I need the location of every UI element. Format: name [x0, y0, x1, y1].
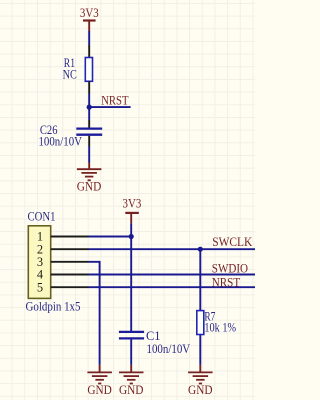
- svg-text:CON1: CON1: [28, 209, 56, 223]
- svg-text:NRST: NRST: [212, 275, 241, 289]
- svg-text:SWDIO: SWDIO: [212, 262, 248, 276]
- svg-text:5: 5: [37, 280, 43, 294]
- svg-text:GND: GND: [119, 383, 144, 397]
- svg-text:100n/10V: 100n/10V: [147, 342, 191, 356]
- svg-text:NRST: NRST: [101, 94, 129, 108]
- svg-text:NC: NC: [63, 68, 77, 82]
- svg-text:3V3: 3V3: [123, 196, 142, 210]
- svg-text:100n/10V: 100n/10V: [39, 135, 83, 149]
- svg-text:GND: GND: [77, 180, 102, 194]
- svg-text:SWCLK: SWCLK: [212, 235, 252, 249]
- svg-text:GND: GND: [188, 383, 213, 397]
- svg-text:GND: GND: [87, 383, 112, 397]
- svg-text:3V3: 3V3: [80, 6, 99, 20]
- svg-text:Goldpin 1x5: Goldpin 1x5: [26, 299, 81, 313]
- svg-text:C1: C1: [146, 329, 161, 343]
- svg-text:10k 1%: 10k 1%: [204, 321, 236, 335]
